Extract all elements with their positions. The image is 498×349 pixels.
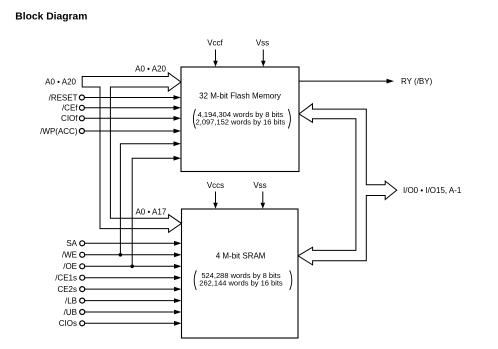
pin circle CIOf bbox=[79, 116, 84, 121]
wire RY output bbox=[299, 80, 388, 82]
svg-text:CIOf: CIOf bbox=[61, 114, 78, 123]
svg-text:A0 • A20: A0 • A20 bbox=[135, 65, 166, 74]
wire CIOf bbox=[84, 117, 176, 119]
pin circle /WP(ACC) bbox=[79, 129, 84, 134]
wire CIOs bbox=[85, 322, 177, 324]
pin circle /UB bbox=[80, 310, 85, 315]
box 4M SRAM bbox=[182, 209, 299, 338]
svg-text:CIOs: CIOs bbox=[59, 319, 77, 328]
arrowheads into SRAM bbox=[174, 241, 182, 246]
pin circle CIOs bbox=[80, 321, 85, 326]
svg-text:A0 • A17: A0 • A17 bbox=[135, 208, 166, 217]
svg-text:SA: SA bbox=[66, 239, 77, 248]
pin circle /CE1s bbox=[80, 275, 85, 280]
Vss supply arrow (SRAM) bbox=[262, 192, 264, 205]
pin circle /WE bbox=[80, 252, 85, 257]
pin circle SA bbox=[80, 241, 85, 246]
svg-text:/OE: /OE bbox=[63, 262, 77, 271]
wire /CEf bbox=[84, 107, 176, 109]
svg-text:262,144 words by 16 bits: 262,144 words by 16 bits bbox=[199, 278, 283, 287]
arrowheads into flash bbox=[174, 95, 182, 100]
svg-text:I/O0 • I/O15, A-1: I/O0 • I/O15, A-1 bbox=[403, 186, 462, 195]
wire /UB bbox=[85, 311, 177, 313]
wire /OE bbox=[85, 265, 177, 267]
wire /RESET bbox=[84, 97, 176, 99]
svg-text:Vss: Vss bbox=[256, 39, 269, 48]
pin circle CE2s bbox=[80, 287, 85, 292]
svg-text:/CE1s: /CE1s bbox=[55, 274, 77, 283]
svg-text:Block Diagram: Block Diagram bbox=[15, 11, 87, 22]
junction dot /WE bbox=[119, 253, 123, 257]
pin circle /OE bbox=[80, 264, 85, 269]
svg-text:/LB: /LB bbox=[65, 297, 77, 306]
wire CE2s bbox=[85, 288, 177, 290]
svg-text:Vss: Vss bbox=[253, 181, 266, 190]
Vccs supply arrow bbox=[215, 192, 217, 205]
wire /LB bbox=[85, 300, 177, 302]
sram parens bbox=[194, 270, 196, 290]
wire SA bbox=[85, 242, 177, 244]
junction dot /OE bbox=[130, 265, 134, 269]
svg-text:/UB: /UB bbox=[64, 308, 77, 317]
svg-text:32 M-bit Flash Memory: 32 M-bit Flash Memory bbox=[199, 92, 281, 101]
svg-text:4 M-bit SRAM: 4 M-bit SRAM bbox=[216, 252, 266, 261]
box 32M flash bbox=[181, 67, 299, 172]
pin circle /LB bbox=[80, 298, 85, 303]
svg-text:Vccs: Vccs bbox=[207, 181, 224, 190]
pin circle /RESET bbox=[79, 95, 84, 100]
wire /WE to flash bbox=[120, 144, 176, 255]
Vss supply arrow (flash) bbox=[262, 50, 264, 63]
svg-text:2,097,152 words by 16 bits: 2,097,152 words by 16 bits bbox=[196, 118, 286, 127]
Vccf supply arrow bbox=[215, 50, 217, 63]
svg-text:/CEf: /CEf bbox=[62, 104, 78, 113]
I/O hollow channel (right side) bbox=[298, 104, 397, 265]
svg-text:/WE: /WE bbox=[62, 251, 77, 260]
wire /WE bbox=[85, 254, 177, 256]
wire /WP(ACC) bbox=[84, 130, 176, 132]
svg-text:Vccf: Vccf bbox=[207, 39, 223, 48]
svg-text:RY (/BY): RY (/BY) bbox=[401, 77, 433, 86]
svg-text:A0 • A20: A0 • A20 bbox=[45, 78, 76, 87]
bus A0-A20 / A0-A17 hollow channel bbox=[82, 73, 181, 233]
svg-text:/RESET: /RESET bbox=[49, 93, 78, 102]
wire /CE1s bbox=[85, 277, 177, 279]
svg-text:CE2s: CE2s bbox=[57, 285, 77, 294]
flash parens bbox=[193, 109, 195, 129]
wire /OE to flash bbox=[132, 158, 176, 266]
pin circle /CEf bbox=[79, 105, 84, 110]
svg-text:/WP(ACC): /WP(ACC) bbox=[40, 127, 78, 136]
